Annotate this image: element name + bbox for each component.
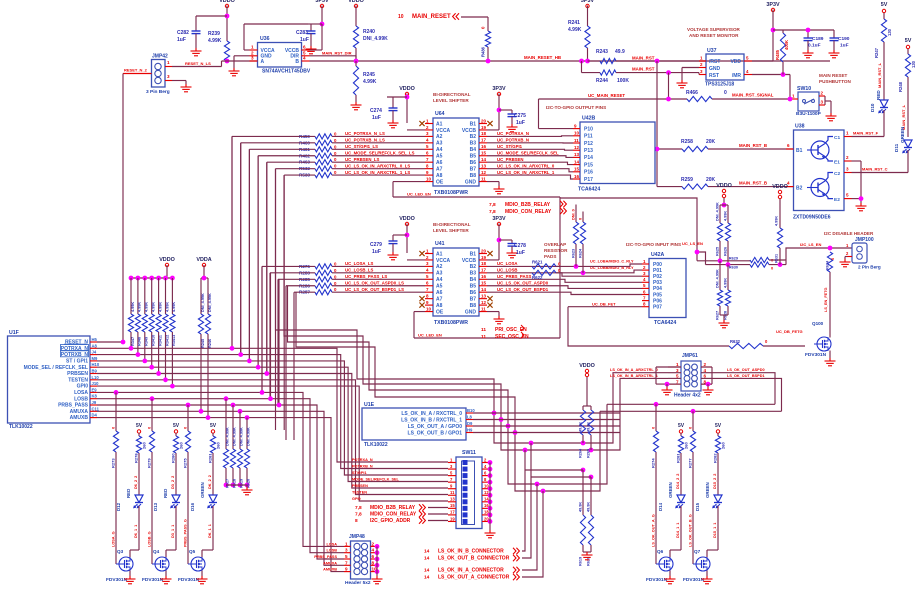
svg-text:10: 10	[574, 131, 580, 136]
svg-text:R3410: R3410	[152, 335, 156, 346]
svg-text:3P3V: 3P3V	[315, 0, 329, 4]
svg-text:R623: R623	[572, 249, 576, 258]
svg-text:P05: P05	[653, 292, 662, 298]
svg-text:L10: L10	[92, 375, 100, 380]
svg-text:A6: A6	[436, 290, 443, 296]
svg-text:DNI_0: DNI_0	[572, 209, 576, 220]
svg-text:3P3V: 3P3V	[492, 216, 506, 222]
svg-text:Header 4x2: Header 4x2	[674, 393, 701, 399]
svg-text:U1E: U1E	[364, 402, 375, 408]
svg-text:LEVEL SHIFTER: LEVEL SHIFTER	[433, 98, 469, 103]
svg-text:PRBS_PASS_G: PRBS_PASS_G	[184, 519, 188, 547]
svg-text:A3: A3	[436, 271, 443, 277]
svg-text:D15: D15	[695, 502, 700, 511]
svg-text:A2: A2	[436, 264, 443, 270]
svg-text:R621: R621	[532, 259, 543, 264]
svg-text:A: A	[261, 59, 265, 65]
svg-text:RESET_N_LS: RESET_N_LS	[185, 61, 211, 66]
svg-text:R619: R619	[240, 479, 244, 488]
svg-text:R3413: R3413	[172, 335, 176, 346]
svg-text:LOSA_G: LOSA_G	[112, 531, 116, 547]
svg-text:AMUXA: AMUXA	[323, 561, 337, 565]
svg-text:D14_2 2: D14_2 2	[676, 474, 680, 489]
svg-text:UC_LOSB: UC_LOSB	[497, 268, 518, 273]
svg-text:R241: R241	[568, 20, 580, 26]
svg-text:MAIN_RST_F: MAIN_RST_F	[853, 131, 879, 136]
svg-text:PRBS_PASS: PRBS_PASS	[314, 555, 337, 559]
svg-text:4.99K: 4.99K	[363, 79, 377, 85]
svg-text:B5: B5	[470, 284, 477, 290]
svg-text:GND: GND	[465, 179, 477, 185]
svg-text:17: 17	[450, 510, 455, 515]
svg-text:UC_PRBSEN_LS: UC_PRBSEN_LS	[345, 157, 380, 162]
svg-text:D6_2 2: D6_2 2	[134, 476, 138, 489]
svg-text:B7: B7	[470, 296, 477, 302]
svg-text:B7: B7	[470, 166, 477, 172]
svg-text:P06: P06	[653, 298, 662, 304]
svg-text:UC_LOSB_LS: UC_LOSB_LS	[345, 268, 374, 273]
svg-text:U42A: U42A	[651, 252, 665, 258]
svg-text:D16: D16	[190, 502, 195, 511]
svg-text:D13: D13	[153, 502, 158, 511]
svg-text:5V: 5V	[905, 38, 912, 44]
svg-text:U37: U37	[707, 48, 717, 54]
svg-text:49.9K: 49.9K	[579, 422, 583, 432]
svg-text:5: 5	[676, 374, 679, 379]
svg-text:RESISTOR: RESISTOR	[544, 248, 568, 253]
svg-text:B8: B8	[470, 303, 477, 309]
svg-text:TXB0108PWR: TXB0108PWR	[434, 320, 468, 326]
svg-text:4.99K: 4.99K	[165, 302, 169, 312]
svg-text:A5: A5	[436, 284, 443, 290]
svg-text:RST: RST	[709, 73, 719, 79]
svg-text:13: 13	[574, 152, 580, 157]
svg-text:VCCA: VCCA	[436, 128, 451, 134]
svg-text:260: 260	[142, 442, 147, 449]
svg-text:A3: A3	[436, 141, 443, 147]
svg-text:P17: P17	[584, 177, 593, 183]
svg-text:JMP48: JMP48	[349, 534, 365, 540]
svg-text:VDDO: VDDO	[399, 216, 415, 222]
svg-text:MDIO_B2B_RELAY: MDIO_B2B_RELAY	[370, 505, 416, 511]
svg-text:18: 18	[481, 131, 487, 136]
svg-text:RED: RED	[163, 489, 168, 498]
svg-text:130: 130	[887, 28, 892, 36]
svg-text:UC_ST/GPI1_LS: UC_ST/GPI1_LS	[345, 144, 378, 149]
svg-text:DNI_4.99K: DNI_4.99K	[233, 427, 237, 446]
svg-text:5V: 5V	[173, 423, 180, 429]
svg-text:GREEN: GREEN	[668, 482, 673, 498]
svg-text:1uF: 1uF	[177, 37, 186, 43]
svg-text:3: 3	[167, 74, 170, 79]
svg-text:Q3: Q3	[117, 549, 124, 554]
svg-text:DNI_4.99K: DNI_4.99K	[208, 293, 212, 312]
svg-text:I2C-TO-GPIO INPUT PINS: I2C-TO-GPIO INPUT PINS	[626, 242, 681, 247]
svg-text:POTRXB_N: POTRXB_N	[352, 464, 373, 468]
svg-text:PRBSEN: PRBSEN	[67, 371, 88, 377]
svg-text:17: 17	[481, 138, 487, 143]
svg-text:100K: 100K	[617, 78, 629, 84]
svg-text:U38: U38	[795, 124, 805, 130]
svg-text:B3: B3	[470, 141, 477, 147]
svg-text:1: 1	[846, 131, 849, 136]
svg-text:R240: R240	[363, 29, 375, 35]
svg-text:C1: C1	[834, 135, 840, 141]
svg-text:MAIN RESET: MAIN RESET	[819, 73, 848, 78]
svg-text:LS_OK_IN_A_CONNECTOR: LS_OK_IN_A_CONNECTOR	[438, 568, 504, 574]
svg-text:DNI_4.99K: DNI_4.99K	[716, 269, 720, 288]
svg-text:D15_1 1: D15_1 1	[713, 523, 717, 538]
svg-text:RED: RED	[126, 489, 131, 498]
svg-text:R625: R625	[716, 247, 720, 256]
svg-text:12: 12	[481, 300, 487, 305]
svg-text:R282: R282	[713, 453, 718, 463]
svg-text:UC_LS_OK_IN_ARXCTRL_0: UC_LS_OK_IN_ARXCTRL_0	[497, 163, 555, 168]
svg-text:R624: R624	[579, 248, 583, 258]
svg-text:H5: H5	[92, 337, 98, 342]
svg-text:OE: OE	[436, 309, 444, 315]
svg-text:P02: P02	[653, 274, 662, 280]
svg-text:3: 3	[676, 368, 679, 373]
svg-text:B6: B6	[470, 290, 477, 296]
svg-text:E2: E2	[834, 197, 840, 203]
svg-text:R3411: R3411	[158, 335, 162, 346]
svg-text:U41: U41	[435, 241, 445, 247]
svg-text:11: 11	[481, 306, 486, 311]
svg-text:D14: D14	[658, 502, 663, 511]
svg-text:DNI_4.99K: DNI_4.99K	[247, 427, 251, 446]
svg-text:LS_OK_OUT_B_CONNECTOR: LS_OK_OUT_B_CONNECTOR	[438, 556, 510, 562]
svg-text:VDDO: VDDO	[219, 0, 235, 4]
svg-text:7,8: 7,8	[489, 202, 496, 208]
svg-text:10: 10	[398, 14, 404, 20]
svg-text:UC_LS_OK_IN_ARXCTRL_1: UC_LS_OK_IN_ARXCTRL_1	[497, 170, 555, 175]
svg-text:3P3V: 3P3V	[766, 2, 780, 8]
svg-text:TCA6424: TCA6424	[654, 320, 676, 326]
svg-text:A1: A1	[436, 121, 443, 127]
svg-text:D14_1 1: D14_1 1	[676, 523, 680, 538]
svg-text:A2: A2	[436, 134, 443, 140]
svg-text:TESTEN: TESTEN	[352, 490, 367, 494]
svg-text:RED: RED	[876, 90, 881, 100]
svg-text:R3412: R3412	[165, 335, 169, 346]
svg-text:B2: B2	[470, 264, 477, 270]
svg-text:UC_PRBS_PASS_LS: UC_PRBS_PASS_LS	[345, 274, 387, 279]
svg-text:1uF: 1uF	[516, 250, 525, 256]
svg-text:LOSB: LOSB	[74, 396, 88, 402]
svg-text:R281: R281	[208, 453, 213, 463]
svg-text:7: 7	[345, 560, 348, 565]
svg-text:4: 4	[372, 548, 375, 553]
svg-text:LS_OK_OUT_A_G: LS_OK_OUT_A_G	[652, 514, 656, 547]
svg-text:49.9K: 49.9K	[587, 422, 591, 432]
svg-text:10: 10	[426, 306, 432, 311]
svg-text:49.9K: 49.9K	[579, 502, 583, 512]
svg-text:R243: R243	[596, 49, 608, 55]
svg-text:TESTEN: TESTEN	[68, 377, 88, 383]
svg-text:2: 2	[372, 541, 375, 546]
svg-text:UC_DB_FETG: UC_DB_FETG	[776, 329, 803, 334]
svg-text:I2C_LS_EN: I2C_LS_EN	[800, 242, 821, 247]
svg-text:B10: B10	[467, 408, 475, 413]
svg-text:UC_MODE_SEL/REFCLK_SEL_LS: UC_MODE_SEL/REFCLK_SEL_LS	[345, 151, 415, 156]
svg-text:R275: R275	[183, 458, 188, 468]
svg-text:UC_LS_OK_OUT_BSPD1_LS: UC_LS_OK_OUT_BSPD1_LS	[345, 287, 404, 292]
svg-text:VDDO: VDDO	[579, 363, 595, 369]
svg-text:A8: A8	[92, 343, 98, 348]
svg-text:LS_OK_IN_A / RXCTRL_0: LS_OK_IN_A / RXCTRL_0	[401, 411, 462, 417]
svg-text:D10: D10	[870, 103, 875, 112]
svg-text:R630: R630	[729, 266, 738, 270]
svg-text:4.99K: 4.99K	[775, 216, 779, 226]
svg-text:12: 12	[574, 145, 580, 150]
svg-text:4.99K: 4.99K	[138, 302, 142, 312]
svg-text:R281: R281	[676, 453, 681, 463]
svg-text:5V: 5V	[881, 2, 888, 8]
svg-text:B1: B1	[470, 251, 477, 257]
svg-text:19: 19	[481, 255, 487, 260]
svg-text:260: 260	[179, 442, 184, 449]
svg-text:R622: R622	[532, 275, 543, 280]
svg-text:14: 14	[574, 159, 580, 164]
svg-text:C11: C11	[92, 406, 100, 411]
svg-text:R277: R277	[688, 458, 693, 468]
svg-text:UC_MODE_SEL/REFCLK_SEL: UC_MODE_SEL/REFCLK_SEL	[497, 151, 559, 156]
svg-text:C282: C282	[177, 30, 189, 36]
svg-text:H9: H9	[467, 428, 473, 433]
svg-text:R248: R248	[898, 81, 903, 92]
svg-text:A4: A4	[436, 147, 443, 153]
svg-text:VCCB: VCCB	[462, 258, 477, 264]
svg-text:R620: R620	[587, 557, 591, 566]
svg-text:R274: R274	[651, 458, 656, 468]
svg-text:VCCB: VCCB	[462, 128, 477, 134]
svg-text:260: 260	[721, 442, 726, 449]
svg-text:5V: 5V	[210, 423, 217, 429]
svg-text:PRBS_PASS: PRBS_PASS	[58, 403, 89, 409]
svg-text:R273: R273	[111, 458, 116, 468]
svg-text:OVERLAP: OVERLAP	[544, 242, 566, 247]
svg-text:E9: E9	[92, 387, 98, 392]
svg-text:9: 9	[345, 567, 348, 572]
svg-text:14: 14	[424, 549, 430, 555]
svg-text:P16: P16	[584, 170, 593, 176]
svg-text:UC_LOSA_LS: UC_LOSA_LS	[345, 261, 374, 266]
svg-text:PADS: PADS	[544, 254, 556, 259]
svg-text:B8: B8	[470, 173, 477, 179]
svg-text:6: 6	[372, 554, 375, 559]
svg-text:C275: C275	[514, 113, 526, 119]
svg-text:R245: R245	[363, 72, 375, 78]
svg-text:J10: J10	[92, 381, 100, 386]
svg-text:130: 130	[911, 60, 916, 68]
svg-text:4.99K: 4.99K	[568, 27, 582, 33]
svg-text:1uF: 1uF	[372, 115, 381, 121]
svg-text:7,8: 7,8	[355, 512, 362, 518]
svg-text:AMUXB: AMUXB	[323, 568, 337, 572]
svg-text:P04: P04	[653, 286, 662, 292]
svg-text:MAIN_RST_B: MAIN_RST_B	[739, 181, 767, 186]
svg-text:UC_POTRXB_N: UC_POTRXB_N	[497, 138, 529, 143]
svg-text:DK_1 1: DK_1 1	[208, 524, 212, 538]
svg-text:/RST: /RST	[709, 59, 720, 65]
svg-text:U42B: U42B	[582, 116, 596, 122]
svg-text:LS_OK_OUT_BSPD1: LS_OK_OUT_BSPD1	[727, 374, 765, 378]
svg-text:LOSA: LOSA	[326, 542, 337, 546]
svg-text:R245: R245	[201, 339, 205, 348]
svg-text:20: 20	[481, 248, 487, 253]
svg-text:P13: P13	[584, 148, 593, 154]
svg-text:DK_2 2: DK_2 2	[208, 475, 212, 489]
svg-text:I2C-TO-GPIO OUTPUT PINS: I2C-TO-GPIO OUTPUT PINS	[546, 105, 606, 110]
svg-text:Header 5x2: Header 5x2	[345, 580, 371, 586]
svg-text:OE: OE	[436, 179, 444, 185]
svg-text:11: 11	[481, 327, 486, 333]
svg-text:UC_POTRXA_N: UC_POTRXA_N	[497, 131, 529, 136]
svg-text:7,8: 7,8	[489, 209, 496, 215]
svg-text:RESET_N_2: RESET_N_2	[124, 68, 148, 73]
svg-text:MDIO_CON_RELAY: MDIO_CON_RELAY	[370, 512, 417, 518]
svg-text:P10: P10	[584, 126, 593, 132]
svg-text:MODE_SEL / REFCLK_SEL: MODE_SEL / REFCLK_SEL	[24, 365, 88, 371]
svg-text:LS_OK_IN_B_CONNECTOR: LS_OK_IN_B_CONNECTOR	[438, 549, 504, 555]
svg-text:UC_DB_FET: UC_DB_FET	[592, 302, 616, 307]
svg-text:C190: C190	[838, 36, 850, 42]
svg-text:0: 0	[579, 218, 583, 220]
svg-text:15: 15	[481, 281, 487, 286]
svg-text:UC_LS_OK_IN_ARXCTRL_0_LS: UC_LS_OK_IN_ARXCTRL_0_LS	[345, 163, 410, 168]
svg-text:19: 19	[450, 516, 455, 521]
svg-text:R259: R259	[681, 177, 693, 183]
svg-text:C2: C2	[834, 171, 840, 177]
svg-text:R626: R626	[724, 247, 728, 256]
svg-text:Q4: Q4	[153, 549, 160, 554]
svg-text:4.99K: 4.99K	[158, 302, 162, 312]
svg-text:I2C_GPIO_ADDR: I2C_GPIO_ADDR	[370, 518, 411, 524]
svg-text:AMUXA: AMUXA	[70, 409, 89, 415]
svg-text:4.99K: 4.99K	[152, 302, 156, 312]
svg-text:SW10: SW10	[797, 86, 811, 92]
svg-text:E1: E1	[834, 160, 840, 166]
svg-text:Q7: Q7	[694, 549, 701, 554]
svg-text:R280: R280	[171, 453, 176, 463]
svg-text:ST/GPI1: ST/GPI1	[352, 471, 367, 475]
svg-text:5: 5	[846, 193, 849, 198]
svg-text:R631: R631	[775, 254, 779, 263]
svg-text:12: 12	[481, 170, 487, 175]
svg-text:MAIN_RESET: MAIN_RESET	[412, 14, 451, 20]
svg-text:TCA6424: TCA6424	[578, 187, 600, 193]
svg-text:GPI0: GPI0	[77, 384, 89, 390]
svg-text:1uF: 1uF	[516, 120, 525, 126]
svg-text:B1: B1	[470, 121, 477, 127]
svg-text:R239: R239	[208, 31, 220, 37]
svg-text:0: 0	[724, 90, 727, 96]
svg-text:AND RESET MONITOR: AND RESET MONITOR	[689, 33, 739, 38]
svg-text:13: 13	[450, 497, 455, 502]
svg-text:R244: R244	[596, 78, 608, 84]
svg-text:MDIO_B2B_RELAY: MDIO_B2B_RELAY	[505, 202, 551, 208]
svg-text:C279: C279	[370, 242, 382, 248]
svg-text:MAIN_RST: MAIN_RST	[632, 67, 655, 72]
svg-text:3: 3	[846, 167, 849, 172]
svg-text:16: 16	[574, 174, 580, 179]
svg-text:3P3V: 3P3V	[581, 0, 595, 4]
svg-text:11: 11	[481, 176, 486, 181]
svg-text:UC_LOBA/MDIO_C_RLY: UC_LOBA/MDIO_C_RLY	[590, 260, 634, 264]
svg-text:BI-DIRECTIONAL: BI-DIRECTIONAL	[433, 92, 471, 97]
svg-text:4.99K: 4.99K	[724, 278, 728, 288]
svg-text:VCCA: VCCA	[436, 258, 451, 264]
svg-text:P15: P15	[584, 162, 593, 168]
svg-text:6: 6	[704, 374, 707, 379]
svg-text:Q100: Q100	[812, 321, 824, 326]
svg-text:1: 1	[251, 45, 254, 50]
svg-text:LS_OK_OUT_B_G: LS_OK_OUT_B_G	[689, 514, 693, 547]
svg-text:GREEN: GREEN	[200, 482, 205, 498]
svg-text:UC_POTRXA_N_LS: UC_POTRXA_N_LS	[345, 131, 385, 136]
svg-text:MAIN_RST_DIR: MAIN_RST_DIR	[322, 51, 352, 56]
svg-text:11: 11	[574, 138, 579, 143]
svg-text:UC_MAIN_RESET: UC_MAIN_RESET	[588, 93, 625, 98]
svg-text:LS_OK_IN_B_ARXCTRL_1: LS_OK_IN_B_ARXCTRL_1	[610, 374, 658, 378]
svg-text:14: 14	[481, 157, 487, 162]
svg-text:FDV301N: FDV301N	[142, 577, 164, 583]
svg-text:2: 2	[846, 155, 849, 160]
svg-text:16: 16	[481, 274, 487, 279]
svg-text:LS_EN_FETG: LS_EN_FETG	[824, 287, 828, 312]
svg-text:B6: B6	[470, 160, 477, 166]
svg-text:P07: P07	[653, 305, 662, 311]
svg-text:GPI0: GPI0	[352, 497, 361, 501]
svg-text:VDDO: VDDO	[348, 0, 364, 4]
svg-text:14: 14	[481, 287, 487, 292]
svg-text:15: 15	[481, 151, 487, 156]
svg-text:C189: C189	[812, 36, 824, 42]
svg-text:1: 1	[345, 541, 348, 546]
svg-text:13: 13	[481, 293, 487, 298]
svg-text:C274: C274	[370, 108, 382, 114]
svg-text:PUSHBUTTON: PUSHBUTTON	[819, 79, 852, 84]
svg-text:B5: B5	[470, 154, 477, 160]
svg-text:R279: R279	[147, 458, 152, 468]
svg-text:FDV301N: FDV301N	[106, 577, 128, 583]
svg-text:20: 20	[481, 118, 487, 123]
svg-text:VDD: VDD	[730, 59, 741, 65]
svg-text:8: 8	[372, 560, 375, 565]
svg-text:R485: R485	[775, 49, 780, 60]
svg-text:M9: M9	[92, 356, 98, 361]
svg-text:LOSA: LOSA	[74, 390, 88, 396]
svg-text:C278: C278	[514, 243, 526, 249]
svg-text:R629: R629	[729, 257, 738, 261]
svg-text:I2C DISABLE HEADER: I2C DISABLE HEADER	[824, 231, 874, 236]
svg-text:B4: B4	[470, 277, 477, 283]
svg-text:7,8: 7,8	[355, 505, 362, 511]
svg-text:R617: R617	[226, 479, 230, 488]
svg-text:K8: K8	[92, 394, 98, 399]
svg-text:R246: R246	[208, 339, 212, 348]
svg-text:UC_LS_OK_IN_ARXCTRL_1_LS: UC_LS_OK_IN_ARXCTRL_1_LS	[345, 170, 410, 175]
svg-text:3 Pin Berg: 3 Pin Berg	[146, 89, 170, 95]
svg-text:MDIO_CON_RELAY: MDIO_CON_RELAY	[505, 209, 552, 215]
svg-text:GREEN: GREEN	[705, 482, 710, 498]
svg-text:4.99K: 4.99K	[724, 211, 728, 221]
svg-text:R348: R348	[138, 337, 142, 346]
svg-text:LOSB: LOSB	[326, 549, 337, 553]
svg-text:15: 15	[574, 167, 580, 172]
svg-text:19: 19	[481, 125, 487, 130]
